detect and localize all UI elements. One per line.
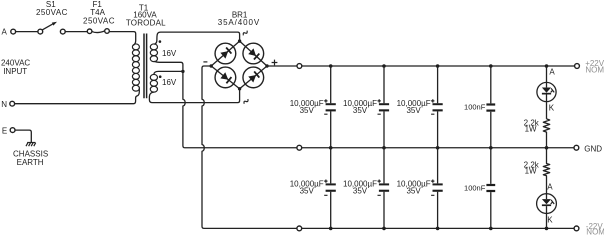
svg-text:NOM: NOM [585, 65, 604, 74]
svg-text:35V: 35V [300, 106, 315, 115]
svg-text:1W: 1W [525, 167, 537, 176]
svg-text:100nF: 100nF [464, 102, 486, 111]
svg-text:GND: GND [584, 144, 602, 153]
svg-text:35V: 35V [406, 187, 421, 196]
svg-text:A: A [547, 182, 553, 191]
svg-text:35V: 35V [353, 106, 368, 115]
svg-text:K: K [549, 103, 555, 112]
svg-text:35V: 35V [406, 106, 421, 115]
svg-text:35V: 35V [353, 187, 368, 196]
svg-text:35V: 35V [300, 187, 315, 196]
svg-text:250VAC: 250VAC [36, 8, 68, 17]
svg-text:1W: 1W [525, 125, 537, 134]
svg-text:35A/400V: 35A/400V [218, 18, 260, 27]
svg-text:16V: 16V [162, 49, 177, 58]
svg-text:E: E [2, 126, 7, 135]
svg-text:TORODAL: TORODAL [126, 19, 166, 28]
svg-text:A: A [549, 68, 555, 77]
svg-text:K: K [547, 215, 553, 224]
svg-text:16V: 16V [162, 78, 177, 87]
svg-text:EARTH: EARTH [17, 158, 44, 167]
svg-text:NOM: NOM [586, 228, 604, 236]
svg-text:A: A [2, 27, 8, 36]
svg-text:N: N [1, 100, 7, 109]
svg-text:250VAC: 250VAC [83, 16, 115, 25]
svg-text:INPUT: INPUT [3, 67, 27, 76]
svg-text:100nF: 100nF [464, 183, 486, 192]
